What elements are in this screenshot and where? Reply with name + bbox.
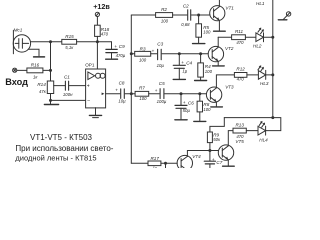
ground (VT2 emitter) xyxy=(213,65,225,67)
resistor R8 xyxy=(197,94,211,112)
svg-text:100: 100 xyxy=(203,30,211,35)
wire VT4 base node down (cropped) xyxy=(165,163,167,168)
resistor R17 xyxy=(148,156,161,171)
svg-text:VT2: VT2 xyxy=(225,46,234,51)
capacitor C4 xyxy=(173,54,192,74)
signal column x131 xyxy=(130,15,132,163)
wire VT5 emitter xyxy=(227,160,229,166)
svg-text:47к: 47к xyxy=(39,89,47,94)
resistor R13 xyxy=(233,123,258,140)
ground (R14) xyxy=(44,100,58,104)
svg-text:1µ: 1µ xyxy=(182,69,187,74)
svg-text:+: + xyxy=(115,88,118,93)
ground (VT5 emitter) xyxy=(223,165,235,167)
resistor R16 xyxy=(27,62,43,79)
svg-text:VT1-VT5 - КТ503: VT1-VT5 - КТ503 xyxy=(30,133,93,142)
resistor R11 xyxy=(218,29,256,45)
wire R7 to C5 xyxy=(149,93,160,95)
ground (op-amp) xyxy=(89,108,101,118)
wire C2 to VT1 base xyxy=(191,14,210,16)
LED HL3 xyxy=(258,65,269,86)
wire op-amp output xyxy=(106,93,120,95)
wire row3 C5 to VT3 base xyxy=(165,93,207,95)
wire VT3 collector up to R12 xyxy=(215,75,217,88)
resistor R9 xyxy=(207,132,221,143)
svg-text:50к: 50к xyxy=(213,137,221,142)
svg-text:HL1: HL1 xyxy=(256,1,265,6)
microphone Mc1 xyxy=(13,27,30,53)
capacitor C6 xyxy=(175,94,194,113)
node X row2 tap xyxy=(130,52,133,55)
node R4 junction xyxy=(199,52,202,55)
svg-text:470: 470 xyxy=(101,32,109,37)
resistor R4 xyxy=(198,54,213,77)
svg-text:R2: R2 xyxy=(161,7,167,12)
wire HL2 to bus xyxy=(264,36,273,38)
staircase to R9/VT4 xyxy=(210,118,224,132)
svg-text:+: + xyxy=(183,100,186,105)
capacitor C7 xyxy=(204,151,222,169)
svg-text:0,68: 0,68 xyxy=(181,22,190,27)
capacitor C3 xyxy=(152,42,165,68)
op-amp OP1 xyxy=(85,62,105,108)
svg-text:диодной ленты - КТ815: диодной ленты - КТ815 xyxy=(15,153,96,162)
row 1: wire to R2 xyxy=(131,14,155,16)
svg-text:10µ: 10µ xyxy=(157,63,165,68)
node VT1 base junction xyxy=(197,14,200,17)
svg-text:+: + xyxy=(87,84,90,90)
svg-text:C1: C1 xyxy=(64,74,70,79)
wire R14 bottom xyxy=(50,94,52,101)
svg-text:R12: R12 xyxy=(236,66,245,71)
ground (C6) xyxy=(175,108,187,120)
wire +12 node to C9 xyxy=(97,42,111,49)
transistor VT1 xyxy=(210,6,235,21)
svg-text:10µ: 10µ xyxy=(118,98,126,103)
node C4 junction xyxy=(178,52,181,55)
svg-text:100: 100 xyxy=(205,69,213,74)
svg-text:5,1к: 5,1к xyxy=(65,45,74,50)
node X row3 tap xyxy=(130,92,133,95)
resistor R5 xyxy=(196,15,211,37)
bottom wire to R17 xyxy=(131,162,148,164)
capacitor C8 xyxy=(115,80,126,103)
ground (R4) xyxy=(195,77,207,80)
wire mic output to node xyxy=(31,41,49,43)
svg-text:HL3: HL3 xyxy=(260,81,269,86)
svg-text:C2: C2 xyxy=(183,4,189,9)
wire ground node to op-amp - input xyxy=(51,99,86,101)
svg-text:R3: R3 xyxy=(140,47,146,52)
svg-text:−: − xyxy=(87,98,90,104)
svg-text:R14: R14 xyxy=(37,82,46,87)
capacitor C1 xyxy=(63,74,73,97)
wire row2 C3 to VT2 base xyxy=(162,53,208,55)
+12v terminal xyxy=(93,2,110,25)
row 2: wire R3 xyxy=(131,53,134,55)
svg-text:100: 100 xyxy=(139,58,147,63)
svg-text:Вход: Вход xyxy=(5,77,28,87)
wire node to C1 xyxy=(54,85,65,87)
capacitor C5 xyxy=(155,81,167,104)
svg-text:C7: C7 xyxy=(216,160,222,165)
wire VT3 emitter xyxy=(215,102,217,106)
svg-text:470µ: 470µ xyxy=(116,53,126,58)
svg-text:VT3: VT3 xyxy=(225,85,234,90)
svg-text:100: 100 xyxy=(161,18,169,23)
svg-text:VT1: VT1 xyxy=(225,6,234,11)
bus long wire xyxy=(224,117,272,119)
svg-text:VT5: VT5 xyxy=(235,139,244,144)
wire R3 to C3 xyxy=(151,53,157,55)
ground (C4) xyxy=(173,68,185,79)
resistor R12 xyxy=(216,66,258,81)
wire VT4 collector / VT5 base node xyxy=(186,151,188,157)
capacitor C9 xyxy=(106,44,126,58)
transistor VT2 xyxy=(208,46,234,62)
wire HL4 to bus xyxy=(266,118,281,131)
svg-text:C6: C6 xyxy=(188,100,194,105)
resistor R15 xyxy=(51,34,98,50)
wire R9 bottom xyxy=(209,143,211,151)
svg-text:+: + xyxy=(152,48,155,53)
capacitor C2 xyxy=(181,4,190,27)
wire R16 to node column xyxy=(43,69,51,71)
resistor R14 xyxy=(37,81,53,94)
svg-text:R13: R13 xyxy=(235,123,244,128)
node +12 junction xyxy=(96,40,99,43)
LED HL4 xyxy=(258,121,268,143)
transistor VT4 xyxy=(177,154,201,171)
wire VT2 emitter xyxy=(217,61,219,65)
wire VT2 collector up to R11 xyxy=(217,37,219,47)
ground (microphone) xyxy=(28,49,44,57)
transistor VT5 xyxy=(218,139,244,160)
node VT4 base junction xyxy=(164,162,167,165)
resistor R3 xyxy=(135,47,151,63)
svg-text:+: + xyxy=(181,60,184,65)
wire R18 to +12 node xyxy=(96,36,98,41)
row 3: R7 xyxy=(135,85,149,101)
svg-text:+: + xyxy=(114,44,117,49)
wire op-amp supply xyxy=(96,42,98,69)
svg-text:+: + xyxy=(212,157,215,162)
input terminal xyxy=(13,68,27,72)
svg-text:C8: C8 xyxy=(119,80,125,85)
ground (VT1 emitter) xyxy=(214,30,226,32)
svg-text:Мс1: Мс1 xyxy=(14,27,23,32)
wire R17 to VT4 base xyxy=(161,162,177,164)
svg-text:R15: R15 xyxy=(65,34,74,39)
node R14 ground junction xyxy=(49,99,52,102)
ground (C9) xyxy=(106,53,118,60)
wire C8 to R7 xyxy=(125,93,135,95)
node VT5 base junction xyxy=(208,149,211,152)
svg-text:50µ: 50µ xyxy=(183,108,191,113)
transistor VT3 xyxy=(206,85,234,103)
svg-text:+: + xyxy=(155,88,158,93)
svg-text:OP1: OP1 xyxy=(85,62,95,67)
LED HL2 xyxy=(253,28,264,49)
node R8 junction xyxy=(198,92,201,95)
ground (VT3 emitter) xyxy=(211,106,223,108)
wire VT1 emitter xyxy=(218,20,220,30)
svg-text:HL2: HL2 xyxy=(253,43,262,48)
ground (R8) xyxy=(194,112,206,122)
svg-text:470: 470 xyxy=(236,134,244,139)
svg-text:R16: R16 xyxy=(31,62,40,67)
wire R2 to C2 xyxy=(173,14,187,16)
svg-text:R7: R7 xyxy=(139,85,145,90)
node column x49 xyxy=(50,42,52,81)
wire HL3 to bus xyxy=(266,74,273,76)
svg-text:VT4: VT4 xyxy=(192,154,201,159)
svg-text:100µ: 100µ xyxy=(157,99,167,104)
wire VT1 collector to top edge xyxy=(218,0,220,6)
ground (R5) xyxy=(193,37,205,43)
wire C1 to op-amp + input xyxy=(69,85,85,87)
resistor R2 xyxy=(156,7,173,24)
svg-text:R17: R17 xyxy=(150,156,159,161)
svg-text:C5: C5 xyxy=(159,81,165,86)
output terminal xyxy=(278,12,291,20)
svg-text:100: 100 xyxy=(139,96,147,101)
wire VT5 collector to R13 xyxy=(228,131,233,146)
svg-text:R11: R11 xyxy=(235,29,244,34)
svg-text:+12в: +12в xyxy=(93,2,110,11)
svg-text:100н: 100н xyxy=(63,92,73,97)
svg-text:HL4: HL4 xyxy=(259,138,268,143)
svg-text:C9: C9 xyxy=(119,44,125,49)
resistor R18 xyxy=(95,25,110,36)
svg-text:100: 100 xyxy=(203,107,211,112)
svg-text:C3: C3 xyxy=(157,42,163,47)
svg-text:При использовании свето-: При использовании свето- xyxy=(15,144,113,153)
svg-text:C4: C4 xyxy=(186,60,192,65)
svg-text:470: 470 xyxy=(237,76,245,81)
LED bus xyxy=(272,0,274,118)
node C6 junction xyxy=(180,92,183,95)
svg-text:470: 470 xyxy=(236,40,244,45)
